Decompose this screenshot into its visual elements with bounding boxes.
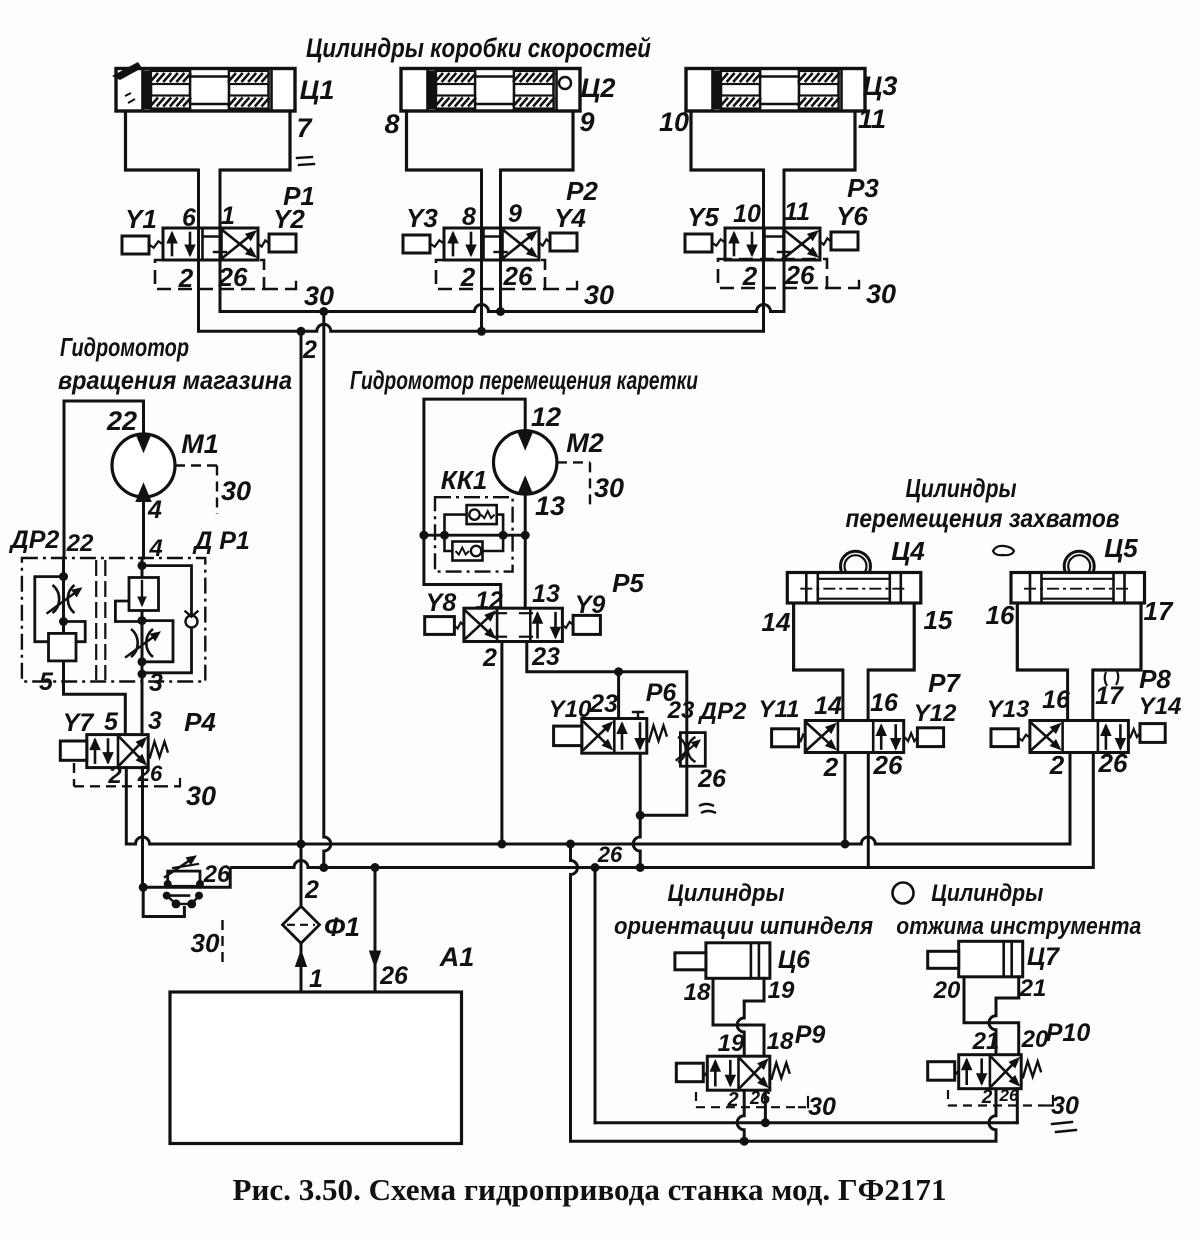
svg-text:ДР2: ДР2: [9, 526, 60, 554]
svg-text:23: 23: [589, 690, 618, 718]
svg-text:3: 3: [148, 707, 162, 735]
svg-text:2: 2: [726, 1089, 738, 1111]
svg-text:4: 4: [147, 496, 162, 524]
mark = near Ц1: [297, 157, 312, 158]
svg-text:26: 26: [597, 842, 623, 867]
svg-text:Цилиндры коробки скоростей: Цилиндры коробки скоростей: [306, 33, 651, 63]
dashed enclosure P2: [436, 260, 545, 289]
svg-text:9: 9: [508, 200, 522, 228]
throttle ДР2 main line: [62, 558, 65, 682]
svg-text:9: 9: [579, 107, 594, 137]
svg-text:18: 18: [684, 979, 711, 1006]
valve P2: [444, 228, 539, 260]
svg-text:ДР2: ДР2: [698, 698, 747, 725]
svg-text:6: 6: [182, 204, 197, 232]
svg-text:20: 20: [1021, 1026, 1049, 1053]
svg-text:2: 2: [1049, 750, 1065, 780]
svg-text:5: 5: [104, 708, 119, 736]
wire Ц4 right port: [867, 670, 870, 721]
svg-text:Р3: Р3: [847, 173, 879, 203]
svg-text:14: 14: [762, 607, 791, 637]
cylinder Ц6: [675, 943, 770, 979]
svg-text:26: 26: [218, 262, 248, 292]
svg-text:Ц5: Ц5: [1104, 533, 1138, 563]
mark approx under DR2-2: [699, 804, 714, 806]
svg-text:26: 26: [749, 1088, 771, 1108]
svg-text:2: 2: [304, 876, 319, 904]
svg-text:5: 5: [39, 668, 54, 696]
node DR1 mid: [138, 616, 147, 625]
svg-text:21: 21: [972, 1028, 1000, 1055]
wire port line left of Ц1: [197, 170, 200, 331]
wire port line left of Ц2: [480, 170, 483, 331]
solenoid Y14: [1140, 724, 1165, 743]
dashed link to 30: [264, 288, 296, 291]
spring P6: [649, 726, 668, 743]
dashed enclosure P10: [947, 1090, 949, 1106]
svg-text:30: 30: [1051, 1092, 1079, 1120]
cylinder Ц4: [787, 551, 921, 603]
svg-text:перемещения захватов: перемещения захватов: [846, 503, 1120, 533]
bus lower (line 26) horizontal: [230, 861, 1093, 868]
svg-text:30: 30: [186, 781, 216, 811]
bus upper (line 2) horizontal: [126, 837, 1070, 844]
svg-text:Y3: Y3: [406, 203, 438, 233]
flow arrow M2 bottom: [518, 477, 533, 495]
wire return to tank: [374, 868, 377, 993]
svg-text:17: 17: [1095, 682, 1124, 710]
throttle symbol ДР2: [53, 585, 60, 613]
svg-text:14: 14: [814, 692, 842, 720]
dash link M2 to 30: [557, 461, 590, 463]
cylinder Ц2: [401, 69, 580, 112]
spring of P9: [771, 1063, 790, 1080]
junction G2 port26 on bus 26: [496, 307, 505, 316]
solenoid Y6: [831, 232, 858, 250]
svg-text:М1: М1: [181, 429, 219, 459]
solenoid Y2: [269, 234, 296, 252]
svg-text:Р2: Р2: [566, 176, 598, 206]
wire P6 bottom down: [633, 753, 640, 867]
svg-text:2: 2: [178, 263, 194, 293]
svg-text:8: 8: [462, 203, 476, 231]
svg-text:2: 2: [823, 752, 839, 782]
dashed link to 30 g2: [545, 288, 577, 291]
check ball DR1: [186, 616, 198, 628]
svg-text:19: 19: [768, 977, 795, 1004]
node DR1 top: [138, 561, 147, 570]
dash 30 filter: [221, 920, 223, 968]
wire Ц6 right to P9 left port: [737, 1001, 744, 1056]
junction P7 port2 bus2: [841, 840, 850, 849]
wire P4 port26 down: [141, 768, 144, 888]
throttle symbol ДР1: [131, 629, 138, 657]
svg-text:Р10: Р10: [1046, 1019, 1091, 1047]
svg-text:2: 2: [460, 262, 476, 292]
wire DR2-2 down: [640, 766, 687, 815]
svg-text:2: 2: [981, 1087, 993, 1108]
wire KK1 top branch: [445, 515, 467, 536]
svg-text:22: 22: [106, 406, 137, 436]
node P9 port26 on L1: [761, 1118, 770, 1127]
svg-text:Р7: Р7: [928, 668, 961, 698]
svg-text:Y13: Y13: [987, 696, 1030, 723]
wire P10 port2 down: [989, 1089, 996, 1142]
dashed link to 30 g3: [827, 287, 859, 290]
svg-text:Ф1: Ф1: [324, 912, 360, 942]
cylinder Ц1 mounting box: [126, 111, 199, 170]
wire Ц7 right to P10 left port: [989, 998, 996, 1055]
check valve block КК1 enclosure: [435, 497, 513, 571]
svg-text:Р5: Р5: [612, 568, 644, 598]
valve P7: [805, 721, 904, 753]
solenoid Y5: [685, 234, 712, 252]
svg-text:16: 16: [1042, 686, 1071, 714]
hydromotor M1: [112, 434, 175, 497]
svg-text:Д Р1: Д Р1: [192, 527, 250, 555]
svg-text:Y11: Y11: [759, 696, 800, 723]
valve P6: [582, 712, 647, 753]
dashed enclosure P4: [73, 763, 75, 786]
wire P8 port2 down: [1069, 753, 1071, 844]
svg-text:26: 26: [1098, 748, 1128, 778]
valve body DR2: [49, 633, 77, 661]
dash link 30 P9: [798, 1106, 808, 1108]
throttle ДР1 main line: [141, 558, 144, 682]
node KK1 join: [499, 531, 508, 540]
svg-text:21: 21: [1019, 975, 1047, 1002]
cylinder Ц5 funnel box: [1017, 603, 1067, 670]
wire to lower bus: [143, 868, 230, 888]
svg-text:16: 16: [986, 600, 1015, 630]
wire M2 left branch: [424, 399, 525, 608]
throttle ДР2-2 symbol: [678, 737, 686, 762]
wire port line right of Ц2: [499, 170, 502, 312]
svg-text:Ц6: Ц6: [778, 946, 811, 974]
svg-text:Y1: Y1: [125, 204, 157, 234]
node KK1 left: [419, 531, 428, 540]
bus line 26 (upper): [220, 305, 784, 312]
svg-text:Р8: Р8: [1139, 664, 1171, 694]
svg-text:Р4: Р4: [184, 707, 216, 737]
wire Ц7 left to P10 right port: [964, 977, 1019, 1055]
svg-text:3: 3: [149, 669, 163, 697]
svg-text:Цилиндры: Цилиндры: [906, 473, 1017, 503]
wire port line right of Ц3: [783, 170, 786, 312]
wire P9 port26 down: [764, 1090, 767, 1123]
wire P5 port23 to P6: [527, 642, 687, 733]
cylinder Ц5: [1011, 551, 1145, 603]
svg-text:Y5: Y5: [687, 202, 719, 232]
wire DR2 loop: [35, 577, 85, 642]
valve P4: [87, 735, 148, 768]
bus L2 line 2 bottom: [571, 1140, 997, 1143]
wire P5 port2 down: [500, 642, 503, 845]
flow arrow suction 1: [296, 951, 307, 967]
bus L1 line 26 bottom: [595, 1121, 1017, 1124]
svg-text:23: 23: [667, 697, 695, 724]
svg-text:15: 15: [924, 605, 953, 635]
svg-text:10: 10: [733, 200, 761, 228]
node P9 port2 on L2: [740, 1137, 749, 1146]
wire DR2 to P4 port5: [64, 682, 126, 735]
valve P3: [725, 228, 820, 260]
svg-text:11: 11: [858, 104, 886, 134]
node P6-DR2 junction: [636, 811, 645, 820]
junction G2 port2 on bus 2: [477, 327, 486, 336]
check valve bottom: [452, 542, 482, 561]
cylinder Ц4 funnel box: [794, 603, 843, 670]
svg-text:26: 26: [203, 861, 231, 888]
wire P8 port26 down: [1092, 753, 1094, 868]
svg-text:Ц7: Ц7: [1027, 943, 1060, 971]
node DR1 low: [138, 657, 147, 666]
svg-text:26: 26: [785, 260, 815, 290]
flow arrow into M2 top: [518, 432, 533, 450]
wire port line left of Ц3: [762, 170, 765, 331]
svg-text:30: 30: [594, 473, 624, 503]
svg-text:30: 30: [221, 476, 251, 506]
node port26 line: [139, 883, 148, 892]
artifact circle C: [893, 883, 914, 904]
svg-text:23: 23: [531, 643, 560, 671]
cylinder Ц7: [928, 941, 1023, 977]
artifact arc pair: [1105, 672, 1107, 686]
svg-text:19: 19: [718, 1030, 745, 1057]
solenoid Y3: [403, 235, 430, 253]
wire P6 top port: [617, 672, 620, 719]
solenoid Y4: [550, 233, 577, 251]
solenoid Y11: [772, 729, 799, 747]
wire port line right of Ц1: [219, 170, 222, 312]
valve P1: [163, 228, 258, 260]
svg-text:Y4: Y4: [554, 203, 586, 233]
svg-text:А1: А1: [439, 942, 475, 972]
dashed enclosure P9: [695, 1092, 697, 1107]
flow arrow into M1 top: [136, 434, 151, 452]
svg-text:26: 26: [697, 765, 727, 793]
node DR2 top: [59, 572, 68, 581]
artifact mark at Ц1 corner: [112, 62, 142, 80]
solenoid Y1: [122, 236, 149, 254]
solenoid of P9: [676, 1063, 703, 1082]
svg-text:12: 12: [475, 587, 503, 615]
solenoid of P10: [928, 1062, 955, 1081]
node switch left: [164, 880, 172, 888]
svg-text:Гидромотор перемещения каретки: Гидромотор перемещения каретки: [350, 365, 698, 395]
junction riser B on bus 26: [319, 307, 328, 316]
svg-text:7: 7: [296, 113, 313, 143]
cylinder Ц3 mounting box: [691, 111, 764, 170]
solenoid Y12: [917, 728, 943, 747]
node KK1 right: [521, 531, 530, 540]
wire riser 2 to bottom section: [571, 844, 578, 1141]
wire P9 port2 down: [737, 1090, 744, 1141]
solenoid Y13: [991, 729, 1018, 747]
junction tank return bus26: [371, 863, 380, 872]
svg-text:КК1: КК1: [441, 465, 487, 495]
artifact blob: [993, 546, 1014, 555]
wire Ц5 left port: [1066, 670, 1069, 721]
flow arrow return 26: [370, 951, 381, 967]
bus line 2 (lower): [199, 324, 764, 331]
svg-text:1: 1: [221, 202, 235, 230]
wire filter to tank: [300, 943, 303, 992]
cylinder Ц1: [116, 69, 295, 112]
svg-text:Y14: Y14: [1139, 693, 1182, 720]
wire P7 port2 down: [844, 753, 847, 845]
valve P10: [959, 1055, 1022, 1089]
svg-text:30: 30: [866, 279, 896, 309]
node KK1 fork: [440, 531, 449, 540]
svg-text:30: 30: [584, 280, 614, 310]
svg-text:16: 16: [870, 689, 899, 717]
wire KK1 bottom branch: [445, 535, 453, 551]
svg-text:1: 1: [309, 965, 323, 993]
reducing valve body DR1: [129, 578, 159, 611]
wire riser 2 (A): [300, 331, 303, 906]
svg-text:Y2: Y2: [273, 204, 305, 234]
flow control enclosure: [22, 558, 205, 682]
node DR1 bottom: [138, 670, 147, 679]
svg-text:18: 18: [767, 1028, 794, 1055]
junction P5 port2 bus2: [497, 840, 506, 849]
junction riser 595 bus26: [591, 863, 600, 872]
wire DR1 right branch: [142, 566, 192, 616]
dashed link to 30 P4: [158, 785, 180, 787]
svg-text:10: 10: [659, 107, 689, 137]
spring P4: [150, 742, 169, 759]
svg-text:Ц4: Ц4: [891, 536, 925, 566]
wire P4 port2 down: [125, 768, 128, 844]
wire Ц5 right port: [1091, 670, 1094, 721]
wire M1 bottom to DR1: [142, 497, 145, 558]
wire Ц4 left port: [841, 670, 844, 721]
junction riser 570 bus2: [566, 840, 575, 849]
svg-text:30: 30: [304, 281, 334, 311]
svg-text:Гидромотор: Гидромотор: [60, 332, 189, 362]
cylinder Ц3: [686, 69, 865, 112]
wire KK1 axis: [424, 534, 525, 537]
dashed enclosure P3: [718, 259, 827, 288]
svg-text:13: 13: [532, 580, 560, 608]
svg-text:13: 13: [535, 491, 565, 521]
dash link 30 P10: [1045, 1104, 1053, 1106]
junction P6 line bus26: [636, 863, 645, 872]
valve P5: [464, 608, 563, 641]
junction riser A on bus 2: [297, 327, 306, 336]
filter Ф1: [283, 906, 320, 943]
svg-text:30: 30: [191, 928, 220, 958]
wire switch loop: [143, 887, 184, 916]
pressure switch arrow: [165, 861, 189, 877]
solenoid Y8: [425, 617, 455, 635]
svg-text:отжима инструмента: отжима инструмента: [896, 913, 1141, 940]
wire bus2 right end up: [1069, 753, 1072, 844]
wire bus26 right end up: [1092, 753, 1095, 868]
wire P10 port26 down: [1016, 1089, 1019, 1123]
wire riser 26 (B): [324, 312, 331, 868]
svg-text:2: 2: [302, 336, 317, 364]
node switch right: [196, 880, 204, 888]
valve P8: [1030, 721, 1129, 753]
wire riser 26 to bottom section: [594, 868, 597, 1123]
svg-text:2: 2: [482, 644, 497, 672]
valve P9: [707, 1056, 770, 1090]
svg-text:Ц2: Ц2: [581, 73, 616, 103]
hydromotor M2: [494, 431, 557, 494]
solenoid Y7: [60, 741, 87, 760]
cylinder Ц2 mounting box: [407, 111, 482, 170]
svg-text:вращения магазина: вращения магазина: [58, 365, 292, 395]
svg-text:17: 17: [1144, 596, 1174, 626]
junction riser B bus26: [319, 863, 328, 872]
svg-text:2: 2: [107, 762, 122, 789]
svg-text:Y8: Y8: [426, 589, 457, 617]
node P6 top junction: [614, 667, 623, 676]
svg-text:Цилиндры: Цилиндры: [931, 880, 1043, 907]
wire P7 port26 down: [867, 753, 870, 868]
node DR2 mid: [59, 617, 68, 626]
svg-text:Ц3: Ц3: [863, 71, 898, 101]
svg-text:ориентации шпинделя: ориентации шпинделя: [614, 913, 873, 940]
arrow in DR1 body: [141, 581, 143, 604]
solenoid Y9: [573, 615, 600, 634]
svg-text:11: 11: [784, 198, 810, 226]
svg-text:Y7: Y7: [63, 709, 95, 737]
mark underline 30 P10: [1052, 1122, 1072, 1124]
pressure switch body: [168, 871, 200, 886]
svg-text:26: 26: [137, 761, 163, 786]
svg-text:26: 26: [873, 750, 903, 780]
spring of P10: [1023, 1061, 1041, 1078]
wire Ц6 left to P9 right port: [713, 978, 764, 1056]
wire DR1 to P4 port3: [141, 682, 144, 735]
svg-text:Р9: Р9: [795, 1021, 826, 1049]
svg-text:2: 2: [742, 261, 758, 291]
dashed enclosure P1: [155, 260, 264, 289]
svg-text:30: 30: [808, 1093, 836, 1121]
throttle ДР2-2 box: [680, 733, 705, 767]
dash link M1 to 30: [175, 464, 217, 466]
svg-text:Ц1: Ц1: [300, 75, 335, 105]
svg-text:22: 22: [66, 530, 94, 557]
svg-text:Цилиндры: Цилиндры: [668, 880, 785, 907]
wire DR1 inner loop: [142, 621, 173, 662]
tank A1: [170, 992, 462, 1144]
svg-text:Y12: Y12: [914, 700, 957, 727]
solenoid Y10: [554, 726, 582, 746]
flow arrow M1 bottom: [136, 484, 151, 502]
svg-text:Y6: Y6: [836, 201, 868, 231]
wire DR1 left step: [115, 601, 142, 622]
wire M2 bottom to P5: [524, 490, 527, 608]
wire M1 left branch 22: [64, 401, 144, 558]
check valve top: [467, 505, 497, 524]
svg-text:12: 12: [531, 402, 561, 432]
switch contact: [163, 892, 171, 900]
svg-text:26: 26: [379, 962, 409, 990]
junction riser A bus2: [297, 840, 306, 849]
svg-text:Рис. 3.50. Схема гидропривода: Рис. 3.50. Схема гидропривода станка мод…: [233, 1172, 947, 1207]
svg-text:20: 20: [933, 977, 961, 1004]
svg-text:26: 26: [503, 261, 533, 291]
svg-text:М2: М2: [566, 428, 604, 458]
svg-text:8: 8: [384, 109, 399, 139]
